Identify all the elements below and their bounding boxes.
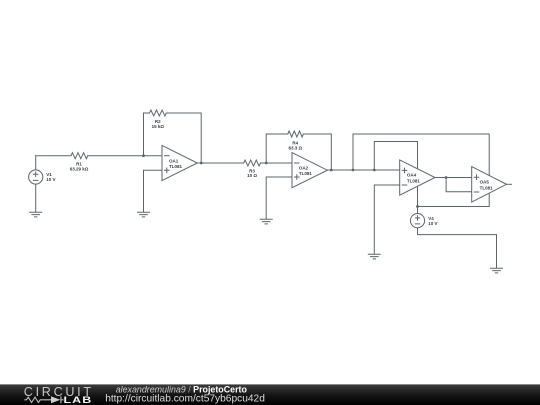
svg-text:OA1: OA1: [169, 158, 179, 163]
svg-text:TL081: TL081: [407, 179, 421, 184]
svg-text:LAB: LAB: [64, 396, 93, 405]
svg-text:TL081: TL081: [480, 185, 494, 190]
svg-text:http://circuitlab.com/ct57yb6p: http://circuitlab.com/ct57yb6pcu42d: [105, 394, 265, 405]
svg-text:OA4: OA4: [407, 173, 417, 178]
svg-text:10 Ω: 10 Ω: [247, 173, 257, 178]
svg-text:OA2: OA2: [299, 166, 309, 171]
svg-text:63.3 Ω: 63.3 Ω: [288, 145, 302, 150]
svg-text:TL081: TL081: [169, 164, 183, 169]
svg-text:OA5: OA5: [480, 180, 490, 185]
svg-text:15 kΩ: 15 kΩ: [152, 124, 165, 129]
svg-text:10 V: 10 V: [46, 177, 55, 182]
svg-text:V4: V4: [428, 216, 434, 221]
svg-text:TL081: TL081: [299, 171, 313, 176]
svg-text:63.29 kΩ: 63.29 kΩ: [70, 167, 89, 172]
svg-text:10 V: 10 V: [428, 221, 437, 226]
